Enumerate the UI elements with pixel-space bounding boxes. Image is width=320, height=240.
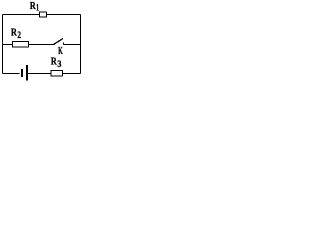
resistor R2 (13, 42, 29, 48)
svg-text:2: 2 (17, 31, 21, 41)
label R1 (30, 0, 39, 14)
resistor R1 (40, 12, 47, 17)
svg-text:1: 1 (36, 4, 39, 14)
svg-text:3: 3 (57, 60, 61, 70)
switch K contact tick (63, 43, 65, 45)
resistor R3 (51, 71, 63, 77)
wire: middle left stub (3, 44, 13, 46)
switch K blade (54, 39, 64, 45)
label R3 (51, 55, 62, 70)
wire: top right segment (47, 14, 81, 16)
wire: top left segment (3, 14, 40, 16)
wire: middle to switch (29, 44, 54, 46)
battery positive plate (long thin) (26, 65, 28, 81)
wire: battery to R3 (28, 73, 51, 75)
wire: bottom left segment (3, 73, 20, 75)
wire: left vertical (2, 15, 4, 74)
svg-text:K: K (58, 46, 63, 57)
wire: switch to right (64, 44, 81, 46)
wire: right vertical (80, 15, 82, 74)
wire: bottom right segment (63, 73, 81, 75)
battery negative plate (short thick) (21, 69, 23, 77)
label R2 (11, 27, 21, 41)
